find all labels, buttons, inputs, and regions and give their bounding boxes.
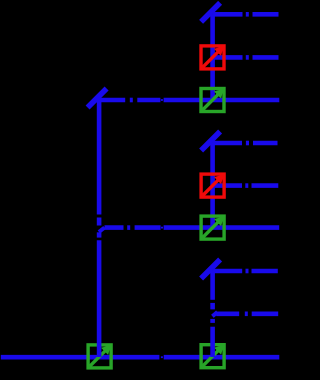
wire: mirror M1 output row, end dash	[253, 12, 279, 17]
wire: mirror M2 output row, long dash	[213, 141, 242, 146]
wire: bottom bus, left solid segment	[1, 355, 160, 360]
wire: left column jog to G2 branch row	[99, 228, 105, 232]
beam splitter BS1 (red)	[201, 46, 224, 69]
wire: mirror M3 output row, long dash	[213, 269, 243, 274]
mirror M1 (top right)	[201, 3, 220, 22]
wire: group3 elided branch row, dot	[245, 311, 248, 316]
wire: left column vertical, lower solid into G3	[97, 240, 102, 357]
wire: bottom bus, right solid segment	[164, 355, 280, 360]
wire: mirror ML to G1, mid dash	[137, 98, 160, 103]
wire: left column vertical, dash 1	[97, 218, 102, 226]
beam splitter BS2 (red)	[201, 174, 224, 197]
wire: BS1 output row, long dash	[213, 55, 243, 60]
wire: left column vertical, upper solid	[97, 100, 102, 215]
wire: G1 row break sliver	[161, 99, 163, 101]
wire: group3 jog to elided branch row	[212, 312, 217, 316]
coupler G2 (green)	[201, 216, 224, 239]
wire: G2 branch row, dash 2	[135, 225, 161, 230]
wire: BS1 output row, end dash	[253, 55, 279, 60]
wire: group1 vertical beam (M1 through BS1 to G1)	[210, 14, 215, 100]
wire: left column vertical, dash 2	[97, 232, 102, 237]
wire: group3 vertical, lower solid into G4	[210, 327, 215, 357]
wire: G2 branch row, dot	[127, 225, 130, 230]
wire: group3 vertical, dash 2	[210, 319, 215, 323]
wire: BS2 output row, dot	[245, 183, 248, 188]
wire: group2 vertical beam (M2 through BS2 to G2)	[210, 143, 215, 228]
coupler G4 (green, bottom right)	[201, 345, 224, 368]
wire: G2 branch row, dash 1	[105, 225, 124, 230]
mirror M3 (bottom right)	[201, 260, 220, 279]
coupler G1 (green)	[201, 89, 224, 112]
wire: mirror M1 output row, long dash	[213, 12, 243, 17]
wire: G1 row through square to right output	[164, 98, 280, 103]
wire: G2 branch row break sliver	[161, 227, 163, 229]
wire: mirror M2 output row, end dash	[253, 141, 278, 146]
wire: mirror M2 output row, dot	[246, 141, 249, 146]
wire: mirror ML to G1, dot	[130, 98, 133, 103]
coupler G3 (green, bottom left)	[88, 345, 111, 368]
wire: group3 vertical, dash 1	[210, 303, 215, 310]
wire: mirror ML to G1, long dash	[99, 98, 125, 103]
wire: BS2 output row, long dash	[213, 183, 242, 188]
wire: G2 row through square to right output	[164, 225, 280, 230]
wire: BS2 output row, end dash	[252, 183, 279, 188]
wire: bottom bus break sliver	[161, 356, 163, 358]
wire: mirror M3 output row, end dash	[252, 269, 278, 274]
wire: group3 elided branch row, end dash	[252, 311, 279, 316]
mirror ML (left column)	[88, 89, 107, 108]
wire: mirror M3 output row, dot	[246, 269, 249, 274]
wire: BS1 output row, dot	[246, 55, 249, 60]
wire: mirror M1 output row, dot	[246, 12, 249, 17]
wire: group3 elided branch row, dash 1	[216, 311, 239, 316]
wire: group3 vertical, upper solid from M3	[210, 271, 215, 300]
mirror M2 (middle right)	[201, 132, 220, 151]
